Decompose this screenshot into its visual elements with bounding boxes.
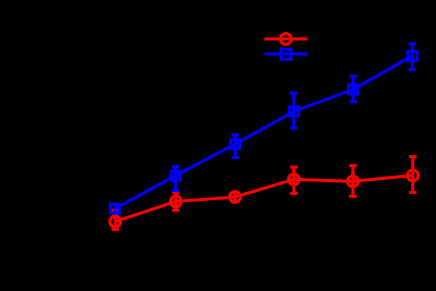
- blue point 3 marker: [231, 140, 240, 149]
- red point 6 marker: [407, 170, 418, 181]
- legend red sample line: [265, 37, 308, 40]
- blue point 5 marker: [349, 85, 358, 94]
- red point 6 error bar: [409, 157, 417, 193]
- legend red sample: [265, 34, 308, 45]
- red point 2 marker: [171, 196, 182, 207]
- red point 3 error bar: [231, 193, 239, 202]
- red point 2 error bar: [172, 193, 180, 210]
- red point 1 marker: [110, 216, 121, 227]
- blue point 3 error bar: [231, 135, 239, 158]
- red series connecting line: [115, 175, 413, 221]
- red point 1 error bar: [111, 210, 119, 229]
- blue point 1 marker: [110, 204, 119, 213]
- legend blue sample: [265, 49, 308, 59]
- red point 4 marker: [289, 174, 300, 185]
- red point 4 error bar: [290, 167, 298, 193]
- blue point 1 error bar: [113, 204, 116, 214]
- blue series (squares with error bars), drawn over red: [110, 44, 417, 214]
- red point 5 marker: [348, 176, 359, 187]
- blue point 6 marker: [408, 51, 417, 60]
- red point 3 marker: [230, 192, 241, 203]
- blue point 4 error bar: [290, 93, 298, 128]
- blue series connecting line: [115, 56, 413, 209]
- legend blue sample line: [265, 52, 308, 55]
- blue point 6 error bar: [409, 44, 417, 70]
- blue point 4 marker: [289, 107, 298, 116]
- red series (circles with error bars): [110, 157, 418, 230]
- blue point 5 error bar: [349, 76, 357, 101]
- blue point 2 error bar: [172, 167, 180, 191]
- blue point 2 marker: [171, 171, 180, 180]
- legend blue sample marker: [281, 49, 291, 59]
- red point 5 error bar: [349, 166, 357, 197]
- legend red sample marker: [280, 34, 291, 45]
